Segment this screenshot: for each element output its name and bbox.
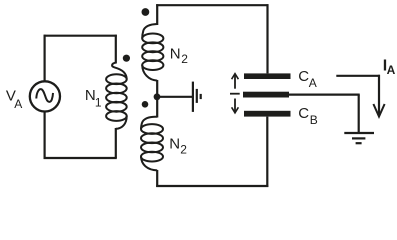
I_A arrow vertical <box>378 75 380 115</box>
svg-text:CB: CB <box>298 105 317 127</box>
ground (right) <box>344 133 374 143</box>
wire: secondary top horizontal <box>156 4 268 6</box>
wire: right ground drop <box>358 95 360 133</box>
wire: left loop right vertical (top) <box>115 35 117 64</box>
inductor N2 (top secondary) <box>142 24 163 81</box>
svg-text:N2: N2 <box>170 45 189 65</box>
wire: secondary vertical between coils (center tap) <box>156 80 158 118</box>
svg-text:VA: VA <box>6 87 22 111</box>
wire: left loop right vertical (bottom) <box>115 128 117 158</box>
inductor N1 (primary) <box>106 63 127 129</box>
svg-text:IA: IA <box>383 58 396 78</box>
capacitor shared middle plate <box>243 92 289 98</box>
I_A arrowhead <box>373 104 384 117</box>
source V_A circle <box>30 81 60 111</box>
wire: right vertical bottom (from C_B) <box>266 117 268 187</box>
arrow up (capacitor adjust) <box>234 75 236 89</box>
phase dot N1 <box>123 55 130 62</box>
wire: left loop left vertical (top) <box>43 35 45 82</box>
phase dot bottom N2 <box>142 101 149 108</box>
wire: middle plate to right ground <box>289 93 360 95</box>
wire: secondary vertical above top N2 <box>156 4 158 25</box>
wire: center tap to ground <box>157 96 192 98</box>
wire: left loop left vertical (bottom) <box>43 111 45 159</box>
wire: right vertical top (to C_A) <box>266 4 268 73</box>
wire: left loop top <box>44 35 117 37</box>
wire: left loop bottom <box>44 157 117 159</box>
wire: secondary vertical below bottom N2 <box>156 170 158 187</box>
wire: secondary bottom horizontal <box>156 185 268 187</box>
capacitor C_A top plate <box>244 73 291 79</box>
phase dot top N2 <box>142 8 150 16</box>
arrow down (capacitor adjust) <box>234 99 236 113</box>
ground (center, rotated right) <box>193 82 201 112</box>
svg-text:N1: N1 <box>85 87 102 110</box>
inductor N2 (bottom secondary) <box>141 117 163 171</box>
dash between arrows <box>230 93 240 95</box>
svg-text:CA: CA <box>298 68 317 90</box>
source V_A sine <box>36 89 53 102</box>
junction dot center tap <box>154 93 161 100</box>
capacitor C_B bottom plate <box>244 111 291 117</box>
svg-text:N2: N2 <box>169 135 187 156</box>
I_A annotation line <box>336 75 380 77</box>
